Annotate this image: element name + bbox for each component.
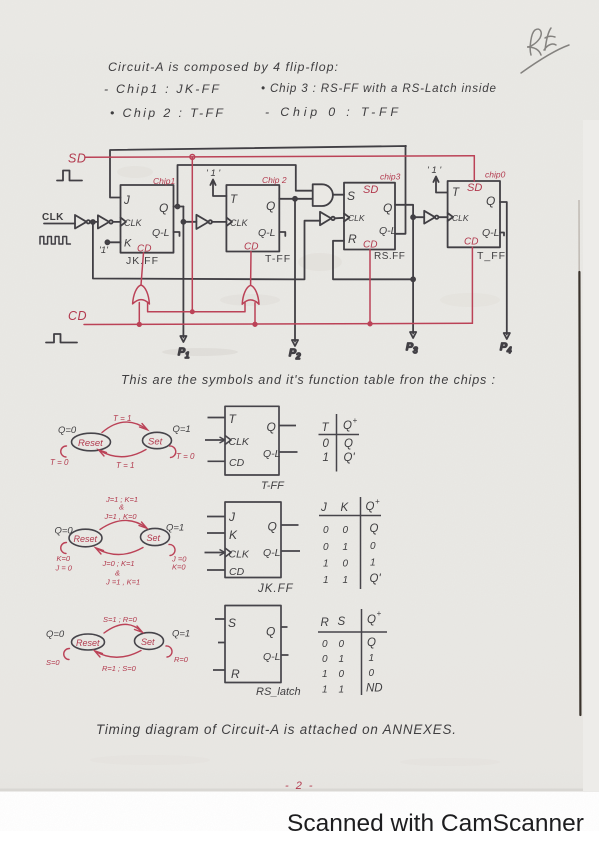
svg-text:K: K: [124, 238, 132, 250]
wire: CD0 riser: [471, 247, 473, 323]
svg-text:Q-L: Q-L: [263, 448, 281, 460]
wire: SD0 drop into chip0: [473, 156, 475, 181]
svg-text:R: R: [231, 667, 240, 681]
svg-text:CD: CD: [137, 244, 151, 255]
node: SD junction: [190, 155, 195, 160]
svg-text:S: S: [228, 616, 236, 630]
svg-text:Q: Q: [366, 501, 375, 513]
wire: inner top rect Q1 to AND input: [178, 165, 313, 207]
svg-text:K=0: K=0: [57, 554, 71, 563]
SD pulse symbol: [57, 171, 82, 181]
label SD pin chip0: [467, 182, 482, 194]
svg-text:CD: CD: [68, 309, 87, 323]
label & top: [119, 503, 124, 512]
state Reset (T): [72, 433, 111, 451]
svg-text:Q=1: Q=1: [173, 424, 191, 435]
pin labels chip3: [347, 189, 397, 246]
svg-text:Q-L: Q-L: [482, 227, 500, 239]
svg-text:&: &: [115, 569, 120, 578]
label '1' at T2: [206, 168, 221, 179]
svg-text:Q: Q: [370, 523, 379, 535]
svg-text:&: &: [119, 503, 124, 512]
svg-text:Q: Q: [367, 614, 376, 626]
pin wedge CLK1: [121, 218, 127, 227]
svg-text:T: T: [230, 194, 238, 206]
svg-text:0: 0: [323, 525, 329, 536]
svg-text:Q-L: Q-L: [379, 225, 397, 237]
svg-text:Q: Q: [266, 199, 275, 213]
wire: QL0 stub: [500, 233, 504, 236]
wire: T0 constant 1: [433, 177, 447, 193]
svg-text:R: R: [348, 232, 357, 246]
wire: OR G3 right input: [254, 303, 256, 325]
svg-text:P: P: [406, 341, 413, 353]
svg-text:Q-L: Q-L: [263, 547, 281, 559]
svg-text:Reset: Reset: [78, 438, 103, 449]
svg-text:Q': Q': [370, 573, 382, 585]
svg-text:S: S: [347, 189, 355, 203]
svg-text:Q: Q: [367, 637, 376, 649]
wire: Q1 output stub: [174, 206, 184, 208]
wire P1 vertical with arrowhead: [180, 207, 186, 343]
wire: feedback QL3 to J1 top frame: [110, 146, 406, 234]
faint smudges: [90, 166, 500, 766]
svg-text:S: S: [338, 616, 346, 628]
wire: OR G2 output to CD1: [141, 253, 144, 285]
svg-text:' 1 ': ' 1 ': [206, 168, 221, 179]
svg-text:T = 0: T = 0: [176, 452, 195, 461]
svg-text:K=0: K=0: [172, 563, 186, 572]
wire: OR G3 output to CD2: [250, 252, 252, 286]
label JK.FF under symbol: [257, 583, 294, 595]
signature RF top right: [521, 28, 569, 73]
svg-text:1: 1: [370, 558, 376, 569]
svg-text:CLK: CLK: [230, 218, 249, 228]
label R=1;S=0 bottom: [102, 664, 137, 673]
label T=0 right: [176, 452, 195, 461]
symbol JK-FF box: [205, 502, 301, 578]
svg-text:CD: CD: [464, 237, 478, 248]
svg-text:4: 4: [507, 346, 512, 355]
label P4: [500, 341, 512, 355]
label J=1,K=0 top: [104, 512, 138, 521]
svg-text:0: 0: [323, 542, 329, 553]
node: Q3 tap junction: [411, 215, 415, 219]
wire: CLK input line: [44, 223, 75, 225]
svg-text:T = 1: T = 1: [113, 414, 131, 423]
label Q=1 (JK): [166, 523, 184, 534]
svg-text:T = 0: T = 0: [50, 458, 69, 467]
state Set (T): [143, 432, 172, 448]
svg-text:0: 0: [322, 654, 328, 665]
label J=1;K=1 top: [105, 495, 138, 504]
pin labels RS-latch symbol: [228, 616, 281, 681]
CD pulse symbol: [46, 334, 77, 343]
svg-text:- Chip1 : JK-FF: - Chip1 : JK-FF: [104, 82, 220, 96]
title: Circuit-A is composed by 4 flip-flop:: [108, 60, 338, 74]
pin labels chip0: [452, 187, 500, 239]
svg-text:Chip1: Chip1: [153, 176, 175, 186]
svg-text:1: 1: [343, 575, 349, 586]
pin wedge CLK0: [448, 213, 453, 221]
bottom caption: [96, 722, 456, 737]
CamScanner footer: [287, 810, 584, 837]
svg-text:+: +: [377, 609, 382, 618]
symbol T-FF box: [205, 406, 298, 475]
svg-text:J=0 ; K=1: J=0 ; K=1: [102, 559, 135, 568]
svg-text:0: 0: [343, 559, 349, 570]
svg-text:SD: SD: [363, 184, 378, 196]
svg-text:J: J: [320, 502, 327, 514]
svg-text:S=0: S=0: [46, 658, 60, 667]
svg-text:SD: SD: [467, 182, 482, 194]
svg-text:chip3: chip3: [380, 172, 401, 182]
svg-text:RS.FF: RS.FF: [374, 251, 405, 262]
svg-text:+: +: [353, 416, 358, 425]
svg-text:P: P: [500, 341, 507, 353]
label CD pin chip2: [244, 242, 258, 253]
wire: tap to inverter A5: [413, 216, 424, 218]
svg-text:1: 1: [339, 654, 345, 665]
svg-text:Reset: Reset: [74, 534, 98, 544]
svg-text:J=1 , K=0: J=1 , K=0: [104, 512, 138, 521]
svg-text:1: 1: [323, 559, 329, 570]
node: clk junction: [91, 220, 95, 224]
label '1' at T0: [427, 165, 442, 176]
svg-text:RS_latch: RS_latch: [256, 686, 301, 698]
svg-text:CLK: CLK: [229, 549, 250, 561]
svg-text:T-FF: T-FF: [265, 253, 291, 265]
label chip0: [485, 170, 506, 180]
label CD pin chip0: [464, 237, 478, 248]
svg-text:Set: Set: [148, 437, 163, 448]
svg-text:1: 1: [339, 685, 345, 696]
svg-text:Reset: Reset: [76, 638, 100, 648]
svg-text:Q=0: Q=0: [46, 629, 65, 640]
svg-text:0: 0: [339, 669, 345, 680]
svg-text:T: T: [322, 422, 330, 434]
label Q=0 (T): [58, 425, 77, 436]
svg-text:Q': Q': [344, 452, 356, 464]
svg-text:Timing diagram of Circuit-: Timing diagram of Circuit-A is attached …: [96, 722, 456, 737]
svg-text:P: P: [289, 347, 296, 359]
label Q=1 (RS): [172, 629, 190, 640]
label RS_latch under symbol: [256, 686, 301, 698]
node: Q1-innerrect junction: [176, 205, 180, 209]
svg-text:Q=1: Q=1: [172, 629, 190, 640]
state Set (JK): [141, 528, 170, 545]
self loop JK left: [61, 542, 67, 553]
svg-text:Scanned with CamScanner: Scanned with CamScanner: [287, 810, 584, 837]
svg-text:Set: Set: [141, 637, 155, 647]
node: clk2 tap junction: [181, 220, 185, 224]
pin/port labels black: [42, 165, 506, 267]
net CD line: [84, 323, 472, 324]
inverter A2 (clk buffer 2): [98, 215, 121, 228]
label CD pin chip1: [137, 244, 151, 255]
page number -2-: [285, 780, 315, 792]
label CD: [68, 309, 87, 323]
inverter A5 (clk of chip0): [424, 211, 447, 224]
svg-text:K: K: [229, 528, 238, 542]
svg-text:JK.FF: JK.FF: [257, 583, 294, 595]
label J=0;K=1 bottom: [102, 559, 135, 568]
svg-text:+: +: [375, 497, 380, 506]
pin labels chip1: [123, 195, 170, 250]
label T=1 top: [113, 414, 131, 423]
label '1' at K1: [99, 245, 109, 256]
svg-text:0: 0: [343, 525, 349, 536]
svg-text:J = 0: J = 0: [55, 564, 73, 573]
state Reset (JK): [69, 529, 102, 547]
label Chip 2: [262, 175, 287, 185]
function table T-FF: [319, 414, 360, 472]
flip-flop U2 T-FF Chip2 box: [226, 185, 279, 252]
pin labels T-FF symbol: [229, 412, 281, 469]
function table JK-FF: [319, 497, 381, 589]
net SD line: [85, 156, 474, 158]
label J=1,K=1 bottom: [105, 578, 140, 587]
red labels on circuit: [68, 152, 506, 324]
svg-text:Q-L: Q-L: [263, 651, 281, 663]
svg-text:SD: SD: [68, 152, 86, 166]
svg-text:Q: Q: [267, 420, 276, 434]
svg-text:CD: CD: [244, 242, 258, 253]
label P3: [406, 341, 418, 355]
pin labels JK-FF symbol: [228, 510, 281, 578]
AND gate G1: [313, 184, 344, 206]
label T-FF under symbol: [261, 480, 285, 492]
inverter A4 (clk of chip3): [320, 212, 344, 225]
middle caption: [121, 373, 495, 387]
wire P2 vertical with arrowhead: [292, 199, 298, 346]
self loop JK right: [169, 544, 175, 555]
node: CD-OR2 junction: [253, 322, 257, 326]
svg-text:0: 0: [323, 438, 330, 450]
arc JK top: [100, 520, 147, 529]
label T=1 bottom: [116, 461, 134, 470]
node: Q2 junction P2: [293, 197, 297, 201]
svg-text:• Chip 3 : RS-FF with a RS: • Chip 3 : RS-FF with a RS-Latch inside: [261, 82, 497, 95]
svg-text:J =1 , K=1: J =1 , K=1: [105, 578, 140, 587]
label T-FF chip2: [265, 253, 291, 265]
self loop T=0 right: [170, 446, 176, 458]
wire: QL2 stub: [279, 232, 285, 236]
label SD pin chip3: [363, 184, 378, 196]
svg-text:1: 1: [323, 452, 329, 464]
svg-text:CD: CD: [229, 457, 245, 469]
svg-text:ND: ND: [366, 683, 383, 695]
label P2: [289, 347, 301, 361]
svg-text:Circuit-A is composed by 4: Circuit-A is composed by 4 flip-flop:: [108, 60, 338, 74]
svg-text:T-FF: T-FF: [261, 480, 285, 492]
self loop RS left: [64, 648, 70, 659]
label RS.FF: [374, 251, 405, 262]
label & bottom: [115, 569, 120, 578]
svg-text:CLK: CLK: [42, 212, 64, 223]
svg-text:1: 1: [369, 653, 375, 664]
arc T=1 bottom: [99, 450, 147, 457]
svg-text:Q: Q: [266, 625, 275, 639]
svg-text:Q: Q: [344, 438, 353, 450]
wire: tap to inverter A3: [183, 221, 196, 223]
svg-text:CD: CD: [229, 566, 245, 578]
svg-text:CLK: CLK: [452, 213, 469, 223]
pin wedge CLK3: [344, 214, 350, 222]
function table RS-latch: [318, 609, 387, 695]
label J=0 K=0 right: [171, 555, 187, 572]
wire: OR G2 left input: [138, 303, 140, 325]
svg-text:T = 1: T = 1: [116, 461, 134, 470]
label P1: [178, 346, 189, 360]
wire: CD3 riser: [369, 250, 371, 324]
arc T=1 top: [102, 422, 148, 432]
svg-text:Q=0: Q=0: [55, 526, 74, 537]
svg-text:3: 3: [413, 346, 418, 355]
svg-text:0: 0: [339, 639, 345, 650]
svg-text:This are the symbols and: This are the symbols and it's function t…: [121, 373, 495, 387]
wire: OR G2 right input to OR G3: [148, 303, 245, 312]
label K=0 J=0 left: [55, 554, 73, 573]
svg-text:CLK: CLK: [229, 436, 250, 448]
CLK square wave symbol: [40, 237, 70, 245]
svg-text:Chip 2: Chip 2: [262, 175, 287, 185]
svg-text:• Chip 2 : T-FF: • Chip 2 : T-FF: [110, 106, 224, 120]
svg-text:CLK: CLK: [348, 213, 365, 223]
flip-flop U3 RS-FF Chip3 box: [344, 183, 395, 250]
svg-text:J: J: [228, 510, 236, 524]
svg-text:0: 0: [369, 668, 375, 679]
label T=0 left: [50, 458, 69, 467]
label JK.FF: [126, 255, 159, 267]
wire: R3 feedback rail: [333, 241, 413, 279]
svg-text:chip0: chip0: [485, 170, 506, 180]
svg-text:R=0: R=0: [174, 655, 189, 664]
svg-text:Q: Q: [159, 201, 168, 215]
label R=0 right: [174, 655, 189, 664]
svg-text:Q-L: Q-L: [152, 227, 170, 239]
page right edge shadow: [579, 200, 580, 716]
node: SD-OR rail junction: [191, 310, 195, 314]
svg-text:Q: Q: [486, 194, 495, 208]
svg-text:Set: Set: [147, 533, 161, 543]
arc RS bottom: [95, 651, 142, 658]
wire: Q3 output: [395, 205, 413, 217]
svg-text:0: 0: [370, 541, 376, 552]
svg-text:1: 1: [322, 669, 328, 680]
label SD: [68, 152, 86, 166]
node: rail-P3 junction: [411, 277, 415, 281]
node: CD-chip3 junction: [368, 322, 372, 326]
symbol RS-latch box: [213, 606, 289, 683]
pin wedge CLK2: [226, 218, 232, 227]
label Q=1 (T): [173, 424, 191, 435]
svg-text:Q: Q: [343, 420, 352, 432]
svg-text:1: 1: [322, 685, 328, 696]
svg-text:R=1 ; S=0: R=1 ; S=0: [102, 664, 137, 673]
label S=0 left: [46, 658, 60, 667]
inverter A3 (clk of chip2): [196, 215, 226, 229]
arc JK bottom: [96, 548, 144, 555]
svg-text:Q-L: Q-L: [258, 227, 276, 239]
flip-flop U1 JK-FF Chip1 box: [121, 185, 174, 253]
svg-text:S=1 ; R=0: S=1 ; R=0: [103, 615, 138, 624]
wire: T2 constant 1: [210, 180, 226, 197]
inverter A1 (clk buffer 1): [75, 215, 98, 229]
flip-flop U0 T-FF Chip0 box: [448, 181, 500, 247]
OR gate G2 (CD chip1): [133, 285, 150, 304]
label Chip1: [153, 176, 175, 186]
label Q=0 (JK): [55, 526, 74, 537]
svg-text:CLK: CLK: [124, 218, 143, 228]
node: CD-OR1 junction: [137, 323, 141, 327]
svg-text:1: 1: [323, 575, 329, 586]
svg-text:T_FF: T_FF: [477, 250, 506, 262]
bullet Chip1 : JK-FF: [104, 82, 220, 96]
self loop RS right: [166, 646, 172, 657]
svg-text:Q=0: Q=0: [58, 425, 77, 436]
pin labels chip2: [230, 194, 276, 239]
svg-text:R: R: [321, 617, 329, 629]
self loop T=0 left: [61, 446, 67, 457]
state Set (RS): [135, 633, 164, 650]
svg-text:0: 0: [322, 639, 328, 650]
svg-text:- 2 -: - 2 -: [285, 780, 315, 792]
svg-text:T: T: [452, 187, 460, 199]
svg-text:Q: Q: [383, 201, 392, 215]
svg-text:2: 2: [295, 352, 301, 361]
wire P3 vertical with arrowhead: [410, 217, 416, 338]
wire: clk rail to inverter U3clk: [93, 221, 320, 280]
svg-text:P: P: [178, 346, 185, 358]
arc RS top: [104, 624, 143, 633]
svg-text:Q=1: Q=1: [166, 523, 184, 534]
state Reset (RS): [72, 634, 105, 650]
svg-text:' 1 ': ' 1 ': [427, 165, 442, 176]
label T-FF chip0: [477, 250, 506, 262]
svg-text:1: 1: [185, 351, 189, 360]
wire: SD drop to OR rail: [191, 157, 193, 312]
wire: QL1 stub: [174, 232, 180, 236]
bullet Chip 0 : T-FF: [265, 105, 399, 119]
label S=1;R=0 top: [103, 615, 138, 624]
bullet Chip 3 : RS-FF with a RS-Latch inside: [261, 82, 497, 95]
svg-text:'1': '1': [99, 245, 109, 256]
wire: Q2 output to AND: [279, 198, 312, 200]
OR gate G3 (CD chip2): [242, 285, 259, 304]
svg-text:1: 1: [343, 542, 349, 553]
wire: K1 constant 1 stub: [105, 240, 120, 244]
bullet Chip 2 : T-FF: [110, 106, 224, 120]
svg-text:- Chip 0 : T-FF: - Chip 0 : T-FF: [265, 105, 399, 119]
label CLK input: [42, 212, 64, 223]
label Q=0 (RS): [46, 629, 65, 640]
label chip3: [380, 172, 401, 182]
svg-text:J: J: [123, 195, 130, 207]
svg-text:Q: Q: [268, 520, 277, 534]
wire: Q0 output and P4 vertical: [500, 202, 510, 339]
label CD pin chip3: [363, 240, 377, 251]
svg-text:K: K: [341, 502, 350, 514]
svg-text:CD: CD: [363, 240, 377, 251]
